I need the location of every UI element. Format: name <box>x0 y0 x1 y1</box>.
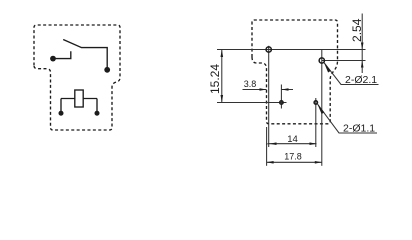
svg-text:14: 14 <box>287 134 298 145</box>
svg-text:2-Ø1.1: 2-Ø1.1 <box>343 123 375 135</box>
svg-text:17.8: 17.8 <box>284 152 302 162</box>
svg-text:15.24: 15.24 <box>208 64 222 94</box>
svg-text:2.54: 2.54 <box>350 18 364 42</box>
svg-text:3.8: 3.8 <box>244 79 257 89</box>
svg-text:2-Ø2.1: 2-Ø2.1 <box>345 74 377 86</box>
